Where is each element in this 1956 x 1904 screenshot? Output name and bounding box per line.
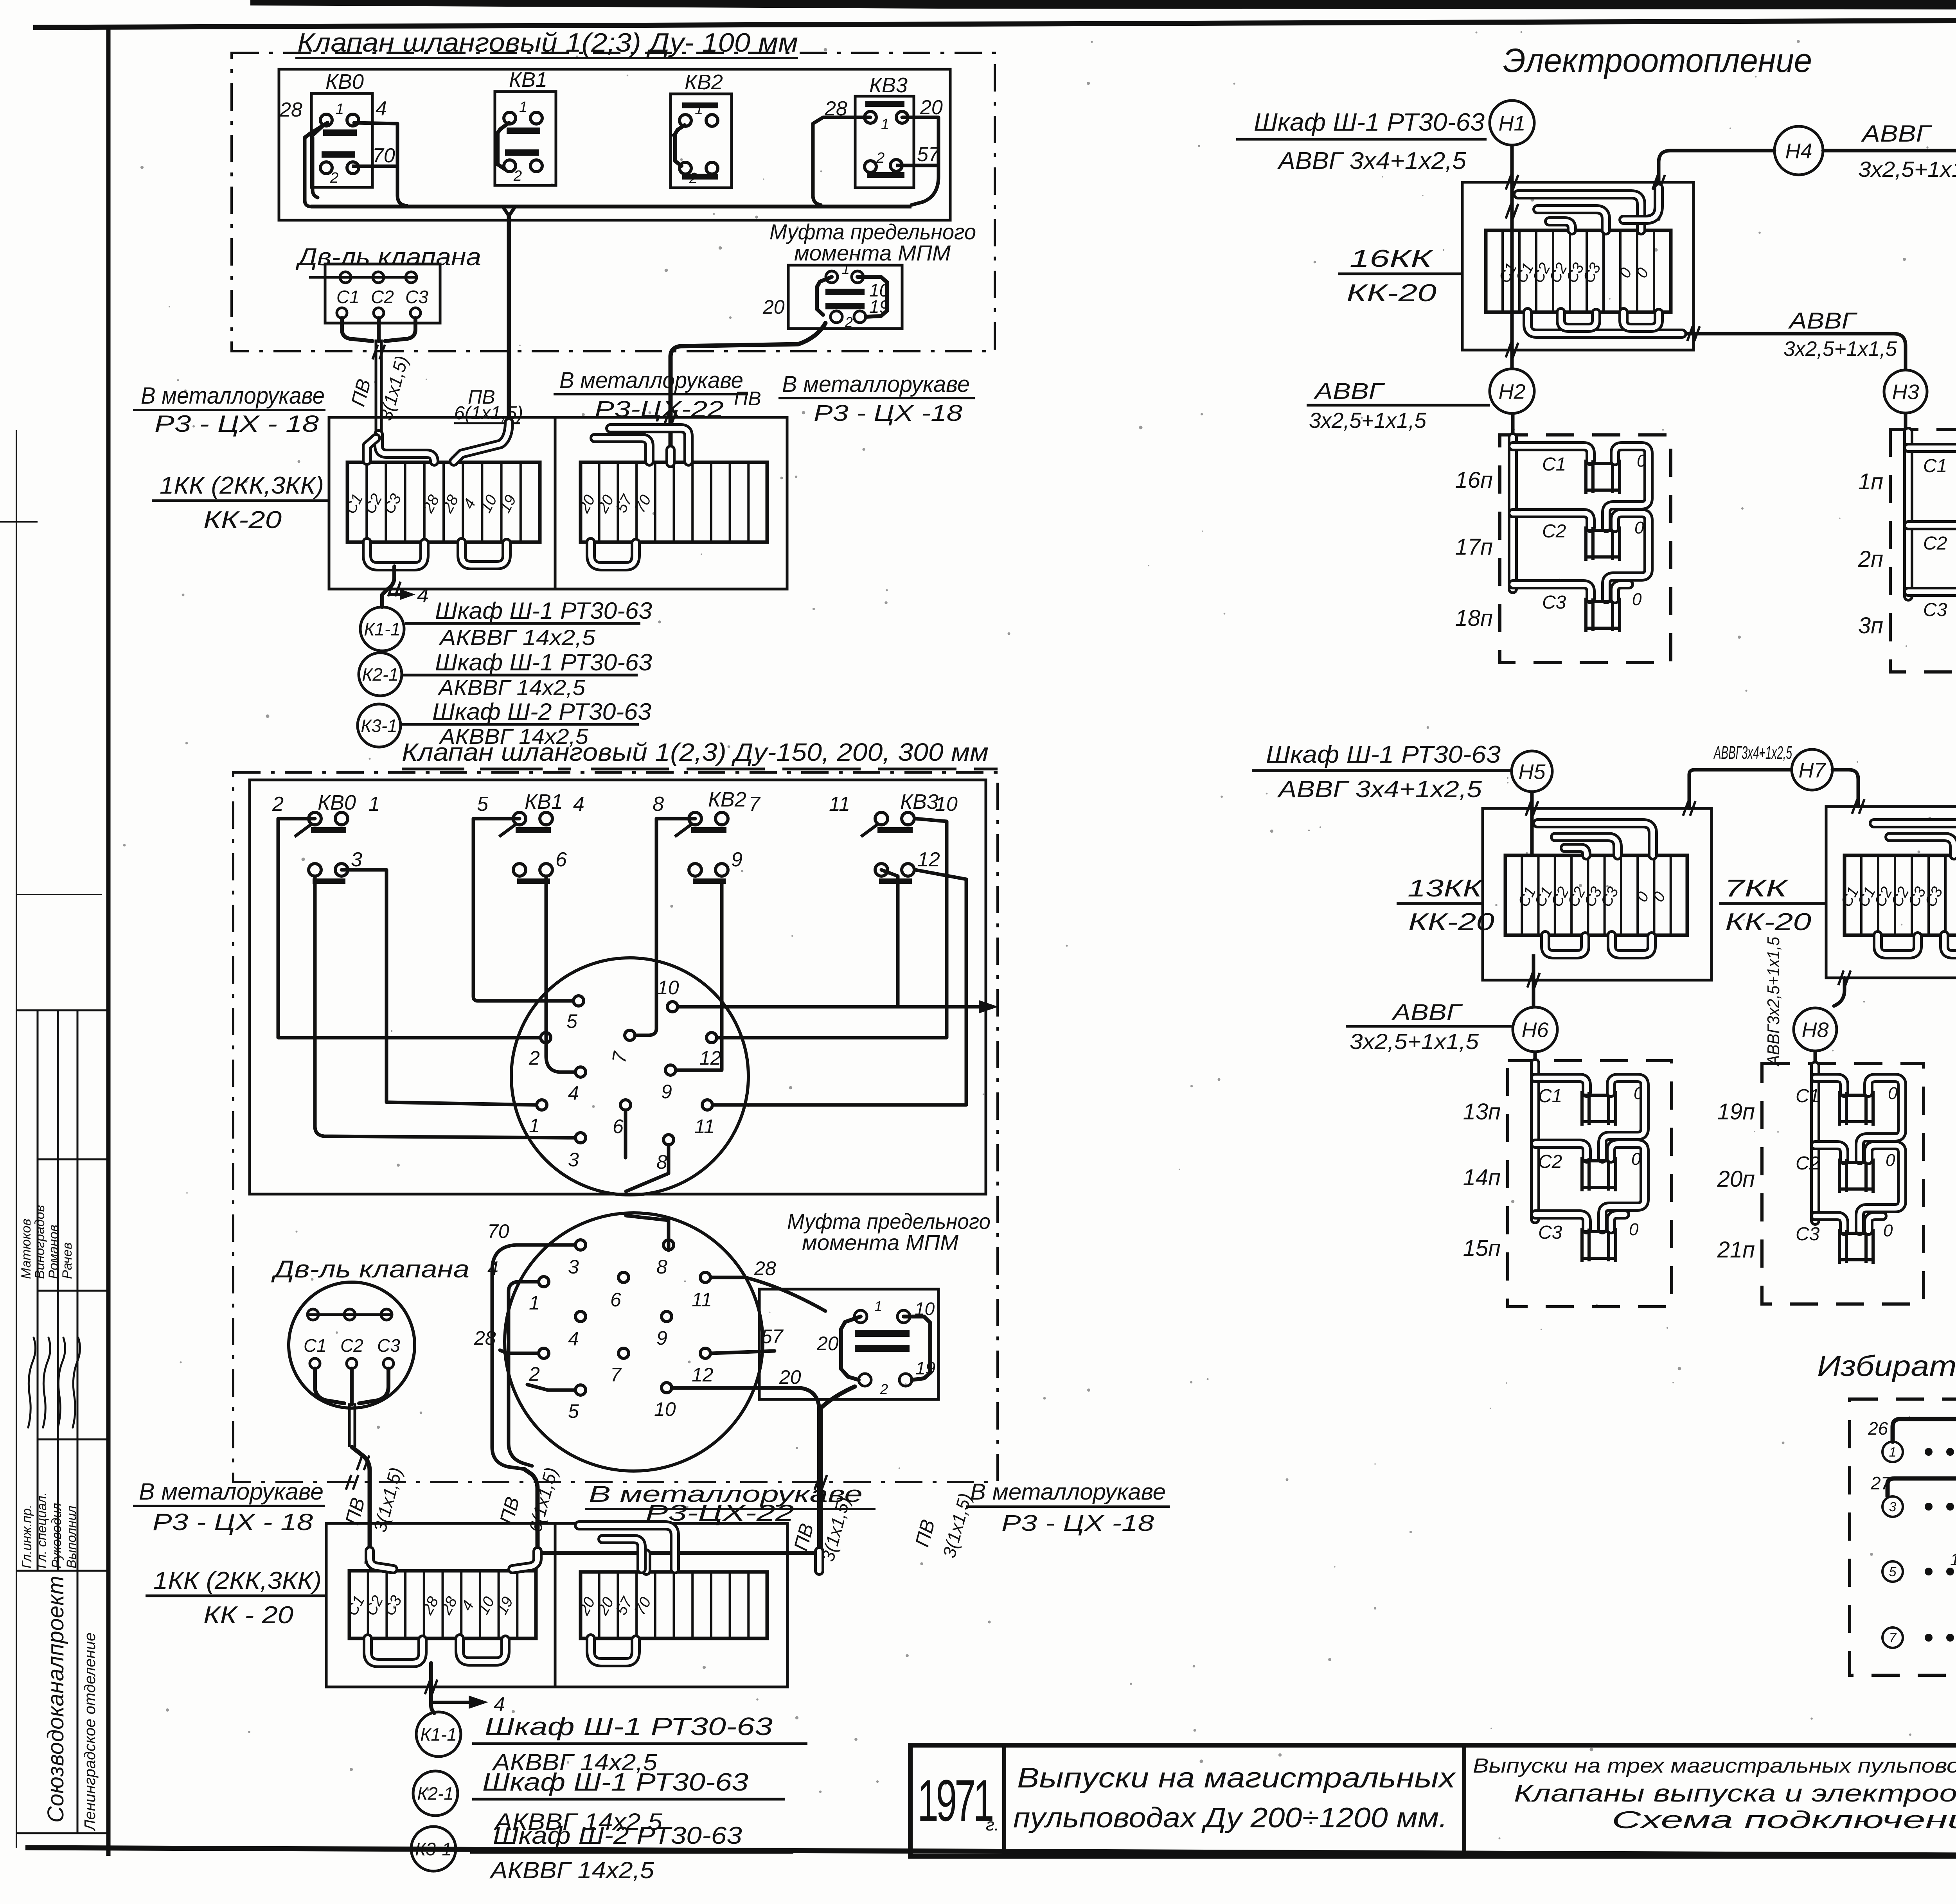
svg-text:КВ3: КВ3 xyxy=(900,790,938,814)
connector2 pin 1 xyxy=(539,1277,549,1287)
svg-text:Шкаф Ш-1 РТ30-63: Шкаф Ш-1 РТ30-63 xyxy=(435,649,652,675)
svg-text:70: 70 xyxy=(372,144,395,167)
heater box 16P-18P xyxy=(1500,435,1671,663)
valve motor box xyxy=(325,264,440,323)
wire xyxy=(902,117,938,205)
svg-text:С3: С3 xyxy=(1923,600,1947,620)
svg-text:Р3 - ЦХ -18: Р3 - ЦХ -18 xyxy=(814,401,962,426)
connector pin 6 xyxy=(620,1100,631,1110)
selector row 3 contacts xyxy=(1882,1561,1903,1582)
svg-text:20: 20 xyxy=(816,1333,839,1354)
svg-text:0: 0 xyxy=(1888,1084,1898,1103)
svg-text:КВ0: КВ0 xyxy=(325,70,364,93)
wire xyxy=(1535,1214,1587,1229)
wire pin3 70 xyxy=(492,1245,575,1469)
wire KB2 to pin7 xyxy=(636,819,695,1035)
selector row1 wire xyxy=(1893,1419,1956,1502)
margin divider xyxy=(16,1570,108,1572)
terminal strip 1KK right xyxy=(581,462,767,542)
svg-text:5: 5 xyxy=(477,793,489,815)
svg-text:К2-1: К2-1 xyxy=(417,1784,454,1804)
wire xyxy=(1615,584,1629,599)
selector row 4 contacts xyxy=(1882,1627,1903,1648)
svg-text:0: 0 xyxy=(1632,590,1642,609)
wire bundle to strip 6x xyxy=(524,1469,538,1552)
svg-text:4: 4 xyxy=(568,1082,579,1104)
svg-text:Шкаф Ш-1 РТ30-63: Шкаф Ш-1 РТ30-63 xyxy=(485,1712,773,1741)
torque coupling MPM xyxy=(788,265,902,329)
svg-text:С3: С3 xyxy=(1796,1224,1820,1245)
svg-text:0: 0 xyxy=(1629,1220,1639,1239)
svg-text:Шкаф Ш-2 РТ30-63: Шкаф Ш-2 РТ30-63 xyxy=(432,699,651,725)
svg-text:момента МПМ: момента МПМ xyxy=(802,1230,958,1255)
wire xyxy=(1535,1144,1587,1159)
wire KB1 to pin4 xyxy=(546,876,574,1072)
wire to K1-1 xyxy=(382,566,394,607)
terminal block outer box xyxy=(329,417,787,589)
svg-text:Н1: Н1 xyxy=(1498,111,1525,135)
svg-text:9: 9 xyxy=(731,848,742,871)
svg-text:10: 10 xyxy=(657,977,679,999)
MPM2 wires xyxy=(841,1317,861,1380)
terminal block outer box lower xyxy=(326,1523,787,1687)
svg-text:Дв-ль клапана: Дв-ль клапана xyxy=(271,1256,469,1283)
svg-text:КВ2: КВ2 xyxy=(685,70,723,94)
margin divider xyxy=(38,1290,108,1292)
wire pin11 to KB3 xyxy=(713,870,966,1105)
svg-text:20: 20 xyxy=(762,296,785,318)
heater element C< xyxy=(1839,1095,1873,1122)
svg-text:3п: 3п xyxy=(1858,613,1883,638)
wire H5 down xyxy=(1530,792,1534,855)
svg-text:АКВВГ 14х2,5: АКВВГ 14х2,5 xyxy=(437,675,586,700)
svg-text:3х2,5+1х1,5: 3х2,5+1х1,5 xyxy=(1309,408,1427,433)
wire KB0 to pin2 xyxy=(278,819,539,1038)
13KK terminal block box xyxy=(1483,808,1711,980)
wires below lower strip xyxy=(368,1638,422,1663)
svg-text:2: 2 xyxy=(529,1047,540,1069)
svg-text:20п: 20п xyxy=(1717,1166,1755,1192)
svg-text:4: 4 xyxy=(417,584,429,607)
svg-text:1: 1 xyxy=(369,793,380,815)
margin divider xyxy=(16,1009,108,1011)
svg-text:С1: С1 xyxy=(336,287,360,307)
svg-text:3: 3 xyxy=(351,848,362,871)
heater element C3 xyxy=(1586,602,1620,628)
wires below 16KK strip xyxy=(1528,312,1682,334)
connector2 pin 4 xyxy=(575,1311,586,1322)
limit switch KB3 mid xyxy=(861,823,879,837)
svg-text:1: 1 xyxy=(529,1292,540,1314)
svg-text:Электроотопление: Электроотопление xyxy=(1503,42,1812,79)
wire pin9 xyxy=(676,884,722,1070)
svg-text:19п: 19п xyxy=(1717,1099,1755,1124)
svg-text:1: 1 xyxy=(842,261,850,277)
connector pin 5 xyxy=(573,996,584,1006)
svg-text:АВВГ 3х4+1х2,5: АВВГ 3х4+1х2,5 xyxy=(1277,147,1467,174)
svg-text:16п: 16п xyxy=(1455,467,1493,493)
svg-text:11: 11 xyxy=(694,1115,715,1137)
svg-text:8: 8 xyxy=(653,793,664,815)
connector2 pin 2 xyxy=(539,1348,549,1358)
wire H7 to 7KK xyxy=(1832,770,1858,807)
node H5 xyxy=(1512,751,1552,792)
signature xyxy=(28,1338,36,1428)
heater element C2 xyxy=(1582,1161,1616,1187)
node K3-1 upper xyxy=(358,704,401,747)
svg-text:13п: 13п xyxy=(1463,1099,1501,1124)
wire pin8 stub xyxy=(626,1145,669,1191)
title block xyxy=(910,1745,1956,1856)
wire H6 to box13P xyxy=(1534,1052,1537,1062)
margin line xyxy=(37,1010,39,1571)
wire 13KK to H6 xyxy=(1532,954,1535,1007)
margin divider xyxy=(38,1159,108,1160)
frame bottom line xyxy=(25,1848,1956,1858)
wire xyxy=(1908,592,1956,607)
heater element C< xyxy=(1582,1095,1616,1122)
svg-text:Р3 - ЦХ - 18: Р3 - ЦХ - 18 xyxy=(155,411,319,437)
svg-text:1КК (2КК,3КК): 1КК (2КК,3КК) xyxy=(153,1567,322,1594)
node K1-1 upper xyxy=(360,607,404,651)
wire xyxy=(1860,1145,1902,1231)
svg-text:Схема подключения.: Схема подключения. xyxy=(1612,1807,1956,1834)
svg-text:КК-20: КК-20 xyxy=(1347,280,1436,307)
svg-text:Н6: Н6 xyxy=(1521,1018,1549,1042)
wire pin6 stub xyxy=(624,1111,627,1158)
connector2 pin 8 xyxy=(663,1240,674,1250)
margin divider xyxy=(38,1439,108,1441)
svg-text:113: 113 xyxy=(1950,1550,1956,1569)
svg-text:С3: С3 xyxy=(1538,1222,1562,1243)
svg-text:В металлорукаве: В металлорукаве xyxy=(782,372,970,397)
wire pin12 to KB3 right xyxy=(717,819,947,1038)
node H8 xyxy=(1794,1008,1837,1051)
svg-text:АВВГ: АВВГ xyxy=(1861,120,1933,147)
16KK terminal block box xyxy=(1462,182,1694,350)
node H6 xyxy=(1513,1007,1557,1052)
margin divider xyxy=(16,1832,108,1834)
svg-text:Н2: Н2 xyxy=(1498,380,1525,403)
connector2 pin 7 xyxy=(618,1348,629,1358)
svg-text:7: 7 xyxy=(610,1364,622,1386)
limit switch KB2 mid xyxy=(675,823,693,837)
svg-text:Выпуски на магистральных: Выпуски на магистральных xyxy=(1017,1762,1457,1794)
svg-text:С2: С2 xyxy=(1796,1153,1819,1174)
wire 16KK to H3 xyxy=(1686,334,1906,369)
svg-text:57: 57 xyxy=(761,1326,784,1347)
wire pin10 branch to KB3 xyxy=(881,870,898,1007)
svg-text:В металлорукаве: В металлорукаве xyxy=(141,383,325,409)
svg-text:С3: С3 xyxy=(377,1335,400,1356)
7KK terminal block box xyxy=(1826,807,1956,978)
svg-text:1: 1 xyxy=(695,101,703,118)
svg-text:12: 12 xyxy=(699,1047,721,1069)
svg-text:АКВВГ 14х2,5: АКВВГ 14х2,5 xyxy=(489,1857,654,1883)
svg-text:26: 26 xyxy=(1868,1418,1888,1439)
connector2 pin 12 xyxy=(700,1348,710,1358)
connector pin 12 xyxy=(707,1033,717,1043)
connector pin 8 xyxy=(663,1135,674,1145)
wire H8 down xyxy=(1814,1051,1817,1065)
svg-text:В металлорукаве: В металлорукаве xyxy=(970,1479,1166,1505)
svg-text:Шкаф Ш-1 РТ30-63: Шкаф Ш-1 РТ30-63 xyxy=(482,1768,748,1796)
svg-text:г.: г. xyxy=(986,1815,999,1834)
signature xyxy=(73,1338,80,1428)
motor cable wire xyxy=(375,339,378,433)
svg-text:1971: 1971 xyxy=(917,1767,992,1833)
svg-text:С1: С1 xyxy=(1542,454,1566,475)
svg-text:Н5: Н5 xyxy=(1518,760,1546,783)
wire xyxy=(305,123,327,138)
margin divider xyxy=(16,894,102,895)
inner box 2 xyxy=(250,780,986,1194)
terminal strip 13KK xyxy=(1505,855,1687,935)
svg-text:Н3: Н3 xyxy=(1892,380,1919,404)
svg-text:8: 8 xyxy=(656,1256,667,1278)
wire pin10 20 xyxy=(672,1388,819,1553)
wires below 13KK strip xyxy=(1545,935,1585,954)
connector pin 1 xyxy=(537,1100,547,1110)
svg-text:4: 4 xyxy=(376,97,387,120)
svg-text:АВВГ: АВВГ xyxy=(1391,1000,1463,1025)
svg-text:Выполнил: Выполнил xyxy=(64,1505,79,1568)
heater element C3 xyxy=(1582,1232,1616,1258)
signature xyxy=(58,1338,65,1428)
wire xyxy=(352,165,396,168)
svg-text:0: 0 xyxy=(1886,1151,1895,1170)
svg-text:момента МПМ: момента МПМ xyxy=(794,241,951,265)
heater element C< xyxy=(1586,463,1620,490)
svg-text:6: 6 xyxy=(556,848,567,871)
node H3 xyxy=(1884,370,1927,413)
wire xyxy=(813,117,870,205)
node H4 xyxy=(1774,126,1823,175)
svg-text:АВВГ3х2,5+1х1,5: АВВГ3х2,5+1х1,5 xyxy=(1764,937,1783,1067)
wire pin10 right with arrow xyxy=(679,1005,986,1009)
svg-text:Романов: Романов xyxy=(46,1225,61,1279)
wire KB0 right to pin1 xyxy=(342,870,536,1105)
svg-text:4: 4 xyxy=(568,1328,579,1350)
connector circle big xyxy=(511,958,748,1195)
svg-text:17п: 17п xyxy=(1455,534,1493,560)
svg-text:КВ0: КВ0 xyxy=(318,791,356,814)
wire xyxy=(1908,525,1956,540)
svg-text:Шкаф Ш-1 РТ30-63: Шкаф Ш-1 РТ30-63 xyxy=(435,598,652,624)
svg-text:С2: С2 xyxy=(1538,1151,1562,1172)
svg-text:13КК: 13КК xyxy=(1408,875,1484,902)
svg-text:пульповодах Ду 200÷1200 мм.: пульповодах Ду 200÷1200 мм. xyxy=(1013,1802,1447,1834)
wire xyxy=(1606,446,1649,528)
svg-text:Рачев: Рачев xyxy=(60,1242,75,1279)
wire KB1 to pin5 xyxy=(473,819,572,1001)
wire xyxy=(1606,513,1649,599)
svg-text:28: 28 xyxy=(279,99,302,121)
wire xyxy=(1815,1078,1844,1093)
svg-text:Шкаф Ш-1 РТ30-63: Шкаф Ш-1 РТ30-63 xyxy=(1266,741,1501,768)
svg-text:К3-1: К3-1 xyxy=(361,716,397,736)
arrow 4 xyxy=(390,593,407,596)
wire pin1 xyxy=(509,1282,538,1466)
connector2 pin 5 xyxy=(575,1385,586,1395)
connector pin 3 xyxy=(575,1133,586,1143)
svg-text:12: 12 xyxy=(917,848,940,871)
wire from MPM to strip xyxy=(671,323,825,454)
connector2 pin 9 xyxy=(662,1311,672,1322)
node K3-1 lower xyxy=(411,1827,456,1871)
wire pin11 28 xyxy=(711,1277,825,1311)
svg-text:КВ1: КВ1 xyxy=(509,68,547,92)
svg-text:2: 2 xyxy=(876,150,885,166)
connector pin 11 xyxy=(702,1100,712,1110)
wire H1 down xyxy=(1510,145,1514,369)
terminal strip 16KK xyxy=(1486,230,1671,312)
svg-text:2: 2 xyxy=(880,1381,888,1397)
svg-text:КК-20: КК-20 xyxy=(203,507,282,533)
svg-text:В металлорукаве: В металлорукаве xyxy=(559,368,743,393)
svg-text:9: 9 xyxy=(656,1327,667,1349)
svg-text:6: 6 xyxy=(610,1289,621,1311)
wires into lower strip xyxy=(370,1551,393,1569)
connector2 pin 3 xyxy=(575,1240,586,1250)
svg-text:7КК: 7КК xyxy=(1724,875,1789,902)
svg-text:9: 9 xyxy=(661,1081,672,1103)
svg-text:К3-1: К3-1 xyxy=(415,1839,452,1859)
wire to lower K1-1 xyxy=(431,1663,434,1713)
svg-text:20: 20 xyxy=(779,1366,801,1388)
heater element C2 xyxy=(1586,530,1620,557)
wire pin5 xyxy=(527,1385,575,1390)
wire 13KK to H7 xyxy=(1689,770,1791,808)
limit switch KB3 xyxy=(855,96,914,188)
wire KB0 to pin3 xyxy=(315,876,574,1138)
svg-text:28: 28 xyxy=(754,1257,776,1279)
connector pin 2 xyxy=(541,1033,551,1043)
wire bottom horizontal xyxy=(538,1551,821,1555)
selector row 1 contacts xyxy=(1882,1442,1903,1462)
connector2 pin 10 xyxy=(662,1383,672,1393)
signature xyxy=(43,1338,50,1428)
wire xyxy=(1611,1214,1625,1229)
margin divider xyxy=(0,521,38,523)
svg-text:18п: 18п xyxy=(1455,605,1493,631)
valve enclosure dash-dot box xyxy=(232,53,995,351)
svg-text:3х2,5+1х1,5: 3х2,5+1х1,5 xyxy=(1858,157,1956,181)
svg-text:1КК (2КК,3КК): 1КК (2КК,3КК) xyxy=(160,472,324,499)
svg-text:С2: С2 xyxy=(340,1335,363,1356)
wire xyxy=(1868,1216,1882,1231)
svg-text:15п: 15п xyxy=(1463,1236,1501,1261)
KB row inner box xyxy=(279,69,950,220)
svg-text:АВВГ3х4+1х2,5: АВВГ3х4+1х2,5 xyxy=(1713,742,1792,763)
wire xyxy=(498,123,509,169)
connector pin 10 xyxy=(667,1002,678,1012)
svg-text:С2: С2 xyxy=(1542,521,1566,542)
wire MPM2 down xyxy=(821,1387,855,1552)
wire 7KK to H8 xyxy=(1834,978,1845,1006)
node H2 xyxy=(1490,369,1534,413)
svg-text:С2: С2 xyxy=(1923,533,1947,554)
svg-text:Клапан шланговый 1(2,3) Ду-150: Клапан шланговый 1(2,3) Ду-150, 200, 300… xyxy=(402,738,989,766)
scan edge strip top xyxy=(250,0,1956,10)
wire xyxy=(1535,1078,1587,1093)
svg-text:В металорукаве: В металорукаве xyxy=(139,1478,324,1505)
svg-text:11: 11 xyxy=(692,1289,712,1311)
node K2-1 lower xyxy=(413,1771,458,1816)
wire xyxy=(1602,1144,1645,1229)
svg-text:АКВВГ 14х2,5: АКВВГ 14х2,5 xyxy=(439,625,596,650)
svg-text:5: 5 xyxy=(1889,1565,1897,1579)
svg-text:КВ1: КВ1 xyxy=(525,790,563,814)
wires below strip xyxy=(367,542,424,566)
svg-text:Выпуски на трех магистральных: Выпуски на трех магистральных пульповода… xyxy=(1473,1755,1956,1777)
svg-text:С2: С2 xyxy=(371,287,394,307)
margin line xyxy=(16,430,17,1848)
terminal strip lower right xyxy=(581,1572,767,1638)
connector circle big 2 xyxy=(505,1213,763,1471)
svg-text:1: 1 xyxy=(1889,1445,1897,1460)
wire pin12 57 xyxy=(711,1351,775,1353)
svg-text:АВВГ 3х4+1х2,5: АВВГ 3х4+1х2,5 xyxy=(1277,776,1482,802)
svg-text:С3: С3 xyxy=(405,287,428,307)
svg-text:10: 10 xyxy=(654,1398,676,1420)
svg-text:70: 70 xyxy=(487,1220,509,1242)
svg-text:6: 6 xyxy=(613,1115,624,1137)
svg-text:3х2,5+1х1,5: 3х2,5+1х1,5 xyxy=(1350,1029,1479,1054)
svg-text:1: 1 xyxy=(881,116,889,133)
connector pin 9 xyxy=(665,1065,676,1075)
terminal strip 1KK left xyxy=(347,462,540,542)
svg-text:16КК: 16КК xyxy=(1350,245,1434,272)
margin line xyxy=(77,1010,79,1833)
connector pin 4 xyxy=(575,1067,586,1077)
svg-text:7: 7 xyxy=(1889,1631,1897,1645)
frame left line xyxy=(106,25,111,1856)
svg-text:С1: С1 xyxy=(304,1335,327,1356)
heater box 19P-21P xyxy=(1762,1063,1924,1304)
svg-text:5: 5 xyxy=(566,1010,577,1032)
svg-text:Союзводоканалпроект: Союзводоканалпроект xyxy=(43,1576,68,1823)
torque coupling MPM 2 xyxy=(759,1289,938,1399)
connector2 pin 6 xyxy=(618,1272,629,1283)
frame top line xyxy=(33,18,1956,27)
svg-text:12: 12 xyxy=(692,1364,714,1386)
svg-text:Руководил: Руководил xyxy=(49,1503,64,1568)
svg-text:КВ3: КВ3 xyxy=(869,74,908,97)
wires into strip xyxy=(379,434,434,462)
svg-text:1: 1 xyxy=(336,101,344,117)
valve enclosure dash-dot box 2 xyxy=(233,772,998,1482)
svg-text:0: 0 xyxy=(1634,518,1644,537)
svg-text:Клапаны выпуска и электроотопл: Клапаны выпуска и электроотопление. xyxy=(1514,1780,1956,1807)
svg-text:К1-1: К1-1 xyxy=(420,1724,457,1745)
svg-text:АВВГ: АВВГ xyxy=(1788,308,1858,334)
terminal strip 7KK xyxy=(1845,855,1956,935)
svg-text:К1-1: К1-1 xyxy=(364,619,401,639)
wire pin8 xyxy=(626,1216,669,1250)
wires above 7KK strip xyxy=(1874,823,1956,855)
wires above 13KK strip xyxy=(1537,823,1653,855)
wire xyxy=(354,123,407,206)
svg-text:14п: 14п xyxy=(1463,1165,1501,1190)
svg-text:4: 4 xyxy=(573,793,584,815)
terminal strip lower left xyxy=(349,1571,536,1638)
svg-text:11: 11 xyxy=(829,793,850,815)
limit switch KB0 mid xyxy=(295,823,313,837)
svg-text:2: 2 xyxy=(272,793,284,815)
node H1 xyxy=(1490,101,1534,145)
connector2 pin 11 xyxy=(700,1272,710,1283)
